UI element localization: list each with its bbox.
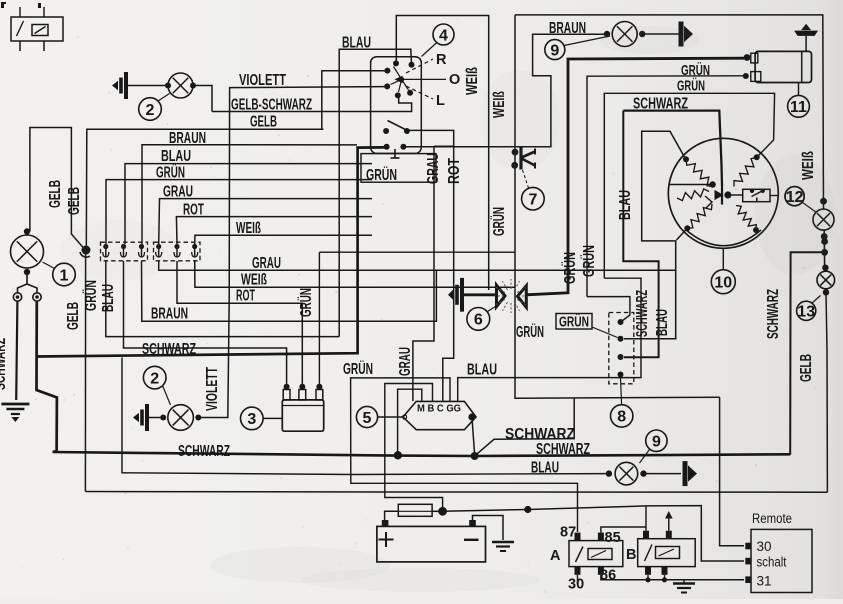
svg-text:31: 31: [757, 574, 772, 589]
svg-text:R: R: [436, 52, 447, 68]
svg-text:9: 9: [550, 42, 559, 59]
svg-text:VIOLETT: VIOLETT: [204, 367, 221, 411]
svg-text:GRAU: GRAU: [425, 153, 442, 184]
svg-text:11: 11: [790, 99, 807, 116]
svg-text:GRÜN: GRÜN: [343, 361, 373, 378]
svg-text:BLAU: BLAU: [617, 190, 634, 220]
svg-text:SCHWARZ: SCHWARZ: [634, 290, 651, 337]
svg-text:2: 2: [146, 102, 155, 119]
svg-text:BRAUN: BRAUN: [549, 20, 586, 37]
svg-text:2: 2: [150, 370, 159, 387]
svg-text:ROT: ROT: [446, 158, 463, 184]
svg-text:GELB: GELB: [250, 114, 277, 131]
svg-text:BRAUN: BRAUN: [169, 130, 206, 147]
svg-text:7: 7: [528, 191, 537, 208]
svg-text:GELB: GELB: [66, 187, 83, 215]
svg-text:WEIß: WEIß: [241, 271, 267, 288]
svg-text:GRÜN: GRÜN: [491, 207, 508, 236]
svg-text:SCHWARZ: SCHWARZ: [178, 443, 230, 460]
svg-text:ROT: ROT: [236, 288, 255, 305]
svg-text:6: 6: [474, 312, 483, 329]
svg-text:L: L: [436, 93, 445, 109]
svg-text:B: B: [626, 547, 636, 563]
svg-text:GELB: GELB: [798, 354, 815, 382]
svg-text:1: 1: [60, 267, 69, 284]
svg-text:8: 8: [617, 409, 626, 426]
svg-text:GRÜN: GRÜN: [83, 280, 100, 311]
svg-text:GRÜN: GRÜN: [156, 164, 185, 181]
svg-text:GRÜN: GRÜN: [677, 77, 705, 94]
svg-text:GRAU: GRAU: [397, 347, 414, 376]
svg-text:O: O: [449, 72, 460, 88]
svg-text:4: 4: [439, 27, 448, 44]
svg-text:BLAU: BLAU: [654, 309, 671, 336]
svg-text:SCHWARZ: SCHWARZ: [765, 289, 782, 339]
svg-text:GELB: GELB: [47, 180, 64, 208]
svg-text:9: 9: [652, 433, 661, 450]
svg-text:87: 87: [560, 525, 576, 541]
svg-text:86: 86: [600, 568, 616, 584]
svg-text:3: 3: [247, 411, 256, 428]
svg-text:10: 10: [714, 274, 732, 291]
svg-text:BLAU: BLAU: [161, 148, 191, 165]
svg-text:BLAU: BLAU: [467, 362, 497, 379]
svg-text:A: A: [550, 548, 561, 564]
svg-text:M B C GG: M B C GG: [417, 403, 461, 415]
svg-text:85: 85: [605, 530, 621, 546]
svg-text:schalt: schalt: [757, 555, 787, 570]
svg-text:SCHWARZ: SCHWARZ: [0, 338, 9, 390]
svg-text:SCHWARZ: SCHWARZ: [536, 441, 590, 458]
svg-text:GELB-SCHWARZ: GELB-SCHWARZ: [231, 97, 312, 114]
svg-text:BRAUN: BRAUN: [151, 305, 188, 322]
svg-text:GRÜN: GRÜN: [298, 288, 315, 317]
svg-text:WEIß: WEIß: [464, 67, 481, 95]
svg-text:GRÜN: GRÜN: [559, 313, 589, 330]
svg-text:30: 30: [568, 577, 584, 593]
svg-text:BLAU: BLAU: [100, 284, 117, 312]
svg-text:ROT: ROT: [183, 201, 204, 218]
svg-text:GRÜN: GRÜN: [562, 252, 579, 284]
svg-text:SCHWARZ: SCHWARZ: [142, 341, 196, 358]
svg-text:GELB: GELB: [65, 302, 82, 330]
svg-text:GRÜN: GRÜN: [366, 167, 397, 184]
svg-text:GRÜN: GRÜN: [581, 245, 598, 277]
svg-text:GRAU: GRAU: [252, 255, 281, 272]
svg-text:Remote: Remote: [752, 511, 792, 526]
svg-text:13: 13: [797, 304, 815, 321]
svg-text:VIOLETT: VIOLETT: [239, 72, 286, 89]
svg-text:5: 5: [363, 410, 372, 427]
svg-text:GRÜN: GRÜN: [516, 324, 544, 341]
svg-text:30: 30: [757, 539, 772, 554]
svg-text:WEIß: WEIß: [236, 220, 261, 237]
